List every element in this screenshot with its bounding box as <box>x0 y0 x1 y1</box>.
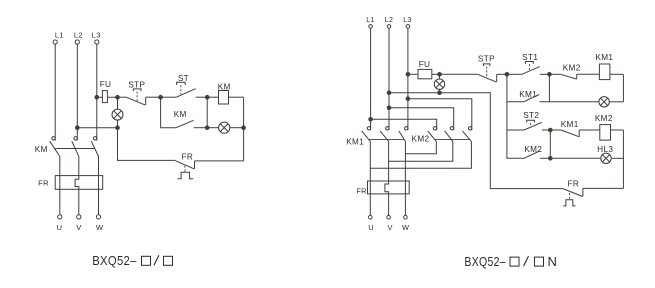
junction on L3 rail2 <box>406 97 410 101</box>
svg-text:KM: KM <box>174 110 187 119</box>
node V (right circuit) <box>387 215 393 232</box>
contact FR (thermal overload, NC) <box>175 152 244 178</box>
svg-text:L3: L3 <box>403 17 412 24</box>
svg-text:V: V <box>388 223 393 232</box>
pushbutton ST2 (start rev, NO) <box>507 111 550 130</box>
svg-text:U: U <box>368 223 374 232</box>
svg-text:L2: L2 <box>385 17 394 24</box>
lamp HL2 (run indicator, left circuit) <box>207 122 243 133</box>
contact KM auxiliary (self-holding, NO) <box>161 97 208 128</box>
wire fuse branch <box>97 96 118 98</box>
contact KM1 main pole 1 <box>362 127 371 181</box>
wire U drop <box>59 189 61 215</box>
coil KM (contactor, left circuit) <box>207 82 243 104</box>
wire node D drop <box>549 130 551 158</box>
wire L3 phase drop (right) <box>407 28 409 130</box>
linkage KM2 main contacts <box>434 138 470 140</box>
thermal relay FR heater box <box>38 176 103 190</box>
fuse FU <box>100 80 112 103</box>
node L1 (right circuit) <box>366 17 375 28</box>
contact KM2 auxiliary (self-hold, NO) <box>524 145 550 158</box>
wire L1 phase drop (right) <box>370 28 372 130</box>
svg-text:FR: FR <box>38 179 49 188</box>
node V (left circuit) <box>76 215 82 232</box>
svg-text:KM2: KM2 <box>524 145 542 154</box>
junction on L3 at fuse tap <box>95 95 99 99</box>
svg-text:N: N <box>548 254 558 269</box>
svg-text:ST2: ST2 <box>523 111 539 120</box>
svg-text:FU: FU <box>100 80 112 89</box>
wire rail3 L2 to pole5 <box>389 108 454 130</box>
svg-text:FU: FU <box>419 60 431 69</box>
wire right rail segment branch1 <box>622 74 624 102</box>
svg-text:KM2: KM2 <box>563 63 581 72</box>
junction HL3 line <box>549 157 553 161</box>
svg-text:ST1: ST1 <box>522 53 538 62</box>
junction at coil input <box>205 95 209 99</box>
svg-text:W: W <box>96 223 104 232</box>
linkage KM main contacts <box>55 148 95 150</box>
contact KM2 main pole 5 <box>389 127 454 162</box>
contact KM main pole 3 <box>91 137 98 176</box>
pushbutton ST1 (start fwd, NO) <box>507 53 550 74</box>
contact KM main pole 1 <box>50 137 60 176</box>
junction on L3 at fuse tap (right) <box>406 73 410 77</box>
wire W drop <box>98 189 100 215</box>
svg-text:L2: L2 <box>74 31 83 40</box>
caption BXQ52 left <box>92 253 172 268</box>
svg-text:V: V <box>76 223 82 232</box>
node L2 (left circuit) <box>74 31 83 45</box>
wire rail1 L2 return to FR <box>389 93 563 189</box>
contact FR (right circuit, NC) <box>563 180 624 206</box>
node W (left circuit) <box>96 215 104 232</box>
node L3 (right circuit) <box>403 17 412 28</box>
contact KM2 main pole 6 <box>370 127 472 169</box>
lamp HL (power indicator, left circuit) <box>112 97 123 128</box>
svg-text:STP: STP <box>128 80 145 89</box>
contact KM1 auxiliary (self-hold, NO) <box>507 90 599 102</box>
junction on L2 <box>76 126 80 130</box>
contact KM2 interlock (NC) <box>549 63 599 79</box>
pushbutton STP (stop, NC) <box>118 80 161 105</box>
junction node A <box>505 73 509 77</box>
svg-text:KM1: KM1 <box>561 120 579 129</box>
wire L2 control rail <box>77 127 117 129</box>
contact KM1 main pole 2 <box>380 127 389 181</box>
wire right rail segment branch2 to FR <box>622 130 624 188</box>
wire parallel branch left <box>206 97 208 128</box>
wire drop to FR contact <box>118 128 175 161</box>
contact KM1 interlock (NC) <box>550 120 600 137</box>
svg-text:L3: L3 <box>92 31 101 40</box>
coil KM2 <box>595 114 624 140</box>
svg-text:BXQ52–: BXQ52– <box>92 253 137 268</box>
junction lamp to L2 rail <box>116 126 120 130</box>
wire L2 phase drop (right) <box>388 28 390 130</box>
contact KM1 main pole 3 <box>399 127 408 181</box>
lamp HL1 (power indicator, right circuit) <box>434 74 444 93</box>
wire L2 phase drop <box>76 44 78 140</box>
svg-text:KM1: KM1 <box>519 90 537 99</box>
wire W drop (right) <box>404 194 406 215</box>
svg-text:KM2: KM2 <box>412 135 430 144</box>
junction after fuse <box>116 95 120 99</box>
node L2 (right circuit) <box>385 17 394 28</box>
junction on L2 rail1 <box>387 91 391 95</box>
svg-text:STP: STP <box>478 54 495 63</box>
caption BXQ52 N right <box>464 254 557 269</box>
pushbutton ST (start, NO) <box>161 74 208 97</box>
junction after fuse (right) <box>438 73 442 77</box>
node L3 (left circuit) <box>92 31 101 45</box>
junction node D <box>549 128 553 132</box>
svg-text:KM1: KM1 <box>346 137 364 146</box>
wire rail2 L3 to pole6 <box>408 99 472 130</box>
lamp HL3 (run rev indicator) <box>550 145 623 163</box>
svg-text:FR: FR <box>356 187 367 196</box>
lamp HL (run fwd indicator) <box>599 97 624 107</box>
junction lamp on rail1 <box>438 91 442 95</box>
wire U drop (right) <box>369 194 371 215</box>
wire L3 phase drop <box>96 44 98 140</box>
node L1 (left circuit) <box>53 31 64 45</box>
contact KM2 main pole 4 <box>405 127 436 154</box>
junction on L2 rail3 <box>387 106 391 110</box>
fuse FU (right circuit) <box>408 60 440 79</box>
junction on L1 rail4 <box>369 118 373 122</box>
junction lamp2 on right rail <box>242 126 246 130</box>
wire rail4 L1 to pole4 <box>371 119 437 130</box>
svg-text:KM: KM <box>35 145 48 154</box>
wire L1 phase drop <box>54 44 56 140</box>
node W (right circuit) <box>402 215 409 232</box>
junction node B <box>548 73 552 77</box>
wire V drop (right) <box>388 194 390 215</box>
svg-text:KM1: KM1 <box>595 53 613 62</box>
junction lamp branch <box>205 126 209 130</box>
node U (left circuit) <box>56 215 62 232</box>
wire node B drop <box>548 74 550 102</box>
svg-text:FR: FR <box>181 152 193 161</box>
svg-text:BXQ52–: BXQ52– <box>464 254 506 269</box>
svg-text:W: W <box>402 223 409 232</box>
wire right rail (left circuit) <box>243 97 245 161</box>
svg-text:L1: L1 <box>366 17 375 24</box>
linkage KM1 main contacts <box>369 138 404 140</box>
svg-text:L1: L1 <box>55 31 64 40</box>
junction ST branch <box>159 95 163 99</box>
contact KM main pole 2 <box>72 137 79 176</box>
wire to STP <box>440 73 478 75</box>
svg-text:U: U <box>56 223 62 232</box>
wire V drop <box>78 189 80 215</box>
coil KM1 <box>595 53 623 80</box>
thermal relay FR heater box (right circuit) <box>356 181 409 196</box>
pushbutton STP (right circuit, NC) <box>478 54 507 82</box>
wire node A drop <box>507 74 524 158</box>
svg-text:FR: FR <box>567 180 579 189</box>
node U (right circuit) <box>368 215 374 232</box>
svg-text:KM2: KM2 <box>595 114 613 123</box>
